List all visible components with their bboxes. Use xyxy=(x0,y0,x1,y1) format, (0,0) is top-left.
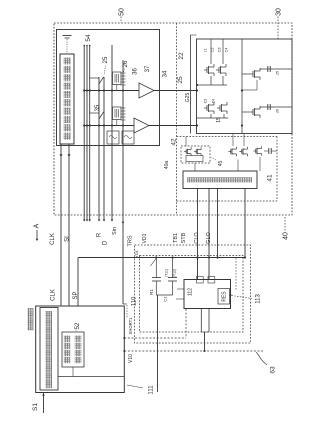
svg-text:25: 25 xyxy=(177,76,184,84)
svg-text:RES: RES xyxy=(221,291,227,302)
svg-text:C3: C3 xyxy=(217,48,221,53)
svg-text:C4: C4 xyxy=(224,48,228,53)
svg-text:37: 37 xyxy=(145,65,151,72)
svg-text:SI: SI xyxy=(65,236,71,242)
svg-text:SHORT1: SHORT1 xyxy=(128,317,133,335)
svg-text:35: 35 xyxy=(95,104,101,111)
svg-text:34: 34 xyxy=(163,70,169,77)
svg-text:D: D xyxy=(103,240,109,245)
svg-text:40a: 40a xyxy=(164,161,170,170)
svg-text:113: 113 xyxy=(256,294,262,304)
svg-text:VD1: VD1 xyxy=(142,233,148,243)
svg-text:63: 63 xyxy=(269,366,276,374)
svg-text:YD1: YD1 xyxy=(134,249,139,258)
svg-text:R1: R1 xyxy=(149,289,154,295)
svg-text:45: 45 xyxy=(218,161,224,167)
svg-text:50: 50 xyxy=(119,8,126,16)
svg-text:r1: r1 xyxy=(203,48,207,51)
svg-text:Sin: Sin xyxy=(112,227,118,235)
svg-text:CLO: CLO xyxy=(194,232,200,244)
svg-text:V10: V10 xyxy=(128,354,134,363)
svg-text:26: 26 xyxy=(275,109,279,113)
svg-text:TRS: TRS xyxy=(127,235,133,246)
svg-text:TB1: TB1 xyxy=(173,233,179,243)
svg-text:112: 112 xyxy=(187,288,193,296)
svg-text:26: 26 xyxy=(123,60,129,67)
svg-text:G25: G25 xyxy=(185,93,191,103)
svg-text:25: 25 xyxy=(103,56,109,63)
svg-text:40: 40 xyxy=(283,232,290,240)
svg-text:36: 36 xyxy=(133,68,139,75)
svg-text:A: A xyxy=(34,223,41,228)
svg-text:CLK: CLK xyxy=(51,289,57,301)
svg-text:52: 52 xyxy=(75,322,81,329)
svg-text:41: 41 xyxy=(266,174,273,182)
svg-text:CLK: CLK xyxy=(50,233,56,245)
svg-text:S1: S1 xyxy=(32,403,39,411)
svg-text:C1: C1 xyxy=(162,296,167,302)
svg-text:GLO: GLO xyxy=(206,231,212,243)
svg-text:42: 42 xyxy=(170,138,177,146)
svg-text:(T11): (T11) xyxy=(164,269,168,277)
svg-text:(T12): (T12) xyxy=(172,269,176,277)
svg-text:C3: C3 xyxy=(203,99,207,104)
svg-text:C2: C2 xyxy=(210,48,214,53)
svg-text:25: 25 xyxy=(275,71,279,75)
svg-text:30: 30 xyxy=(276,8,283,16)
svg-text:15: 15 xyxy=(216,117,222,123)
svg-text:STB: STB xyxy=(181,232,187,243)
svg-text:R: R xyxy=(97,232,103,237)
svg-text:111: 111 xyxy=(149,385,155,395)
svg-text:22: 22 xyxy=(178,52,185,60)
svg-text:C4: C4 xyxy=(211,99,215,104)
svg-text:54: 54 xyxy=(85,34,92,42)
